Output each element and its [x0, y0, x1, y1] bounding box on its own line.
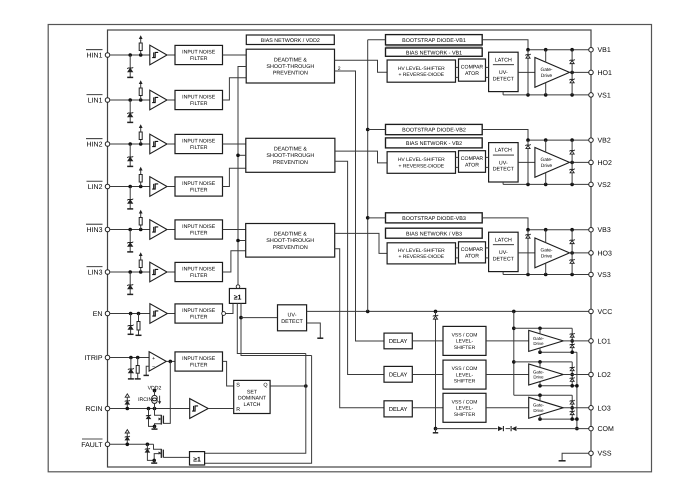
- wire latch VS reference (channel 3): [502, 272, 504, 275]
- pull-up resistor (HIN3): [140, 225, 142, 230]
- ground (ITRIP zener): [128, 378, 134, 380]
- svg-text:LATCH: LATCH: [244, 402, 261, 408]
- svg-text:FILTER: FILTER: [190, 101, 208, 107]
- wire LIN2 input net: [110, 186, 150, 188]
- schmitt trigger (HIN3): [150, 220, 167, 240]
- output clamp zeners (channel 3): [571, 230, 573, 275]
- resistor (ITRIP): [137, 358, 139, 366]
- IC boundary box: [108, 30, 592, 467]
- wire delay3 to level shifter: [412, 407, 443, 409]
- svg-text:Drive: Drive: [541, 253, 553, 259]
- ESD zener (EN): [130, 314, 132, 326]
- ground (LIN3): [127, 293, 133, 295]
- bias network block (VB3): [386, 228, 483, 238]
- pin HIN2: [105, 142, 110, 147]
- svg-text:LO1: LO1: [598, 338, 611, 345]
- comparator block (channel 3): [459, 242, 486, 263]
- svg-text:INPUT NOISE: INPUT NOISE: [182, 267, 216, 273]
- svg-text:VS1: VS1: [598, 92, 611, 99]
- svg-text:Drive: Drive: [533, 408, 544, 413]
- wire fault latch Q to OR gate: [237, 303, 305, 353]
- pin VCC: [589, 309, 594, 314]
- wire latch to gate driver (channel 3): [518, 252, 535, 254]
- svg-text:LATCH: LATCH: [495, 148, 512, 154]
- wire HV to comparator (channel 1): [456, 66, 459, 68]
- svg-text:HO1: HO1: [598, 70, 613, 77]
- svg-text:DETECT: DETECT: [493, 256, 515, 262]
- wire gate driver output HO3: [570, 252, 592, 254]
- inverter bubble (EN filter output): [222, 312, 226, 316]
- inverter bubble (OR gate output): [236, 285, 240, 289]
- wire ITRIP input net: [110, 357, 149, 359]
- VDD arrow (LIN1): [139, 80, 143, 84]
- wire EN to OR gate: [226, 303, 234, 313]
- svg-text:LATCH: LATCH: [495, 57, 512, 63]
- VDD arrow (HIN2): [139, 124, 143, 128]
- pin HO1: [589, 70, 594, 75]
- wire to filter (LIN3): [167, 271, 175, 273]
- wire UV net down to fault OR gate: [205, 356, 312, 464]
- svg-text:VB2: VB2: [598, 138, 611, 145]
- bootstrap diode block (VB2): [386, 124, 483, 134]
- svg-text:VB1: VB1: [598, 47, 611, 54]
- output clamp zeners (channel 2): [571, 140, 573, 184]
- svg-text:INPUT NOISE: INPUT NOISE: [182, 181, 216, 187]
- ground (EN resistor): [136, 334, 142, 336]
- wire UV-detect ground stub: [307, 323, 321, 338]
- svg-text:Gate-: Gate-: [541, 248, 553, 254]
- svg-text:PREVENTION: PREVENTION: [273, 160, 308, 166]
- gate driver (channel 2): [535, 148, 570, 178]
- wire LIN3 input net: [110, 271, 150, 273]
- schmitt trigger (EN): [150, 304, 168, 324]
- svg-text:Gate-: Gate-: [541, 67, 553, 73]
- wire deadtime2 low-side bus to delay2: [335, 161, 384, 374]
- svg-text:INPUT NOISE: INPUT NOISE: [182, 356, 216, 362]
- ground (HIN1): [127, 76, 133, 78]
- wire bootstrap 2 to VB2 rail: [482, 130, 528, 141]
- svg-text:≥1: ≥1: [193, 456, 201, 463]
- wire Q net down to fault OR gate: [205, 354, 306, 454]
- pin VB1: [589, 47, 594, 52]
- svg-text:ATOR: ATOR: [465, 163, 479, 169]
- svg-text:EN: EN: [93, 311, 103, 318]
- svg-text:Drive: Drive: [541, 73, 553, 79]
- bias network block (VB1): [386, 48, 483, 56]
- LO1 clamp zeners: [571, 328, 573, 352]
- svg-text:BOOTSTRAP DIODE-VB1: BOOTSTRAP DIODE-VB1: [402, 38, 466, 44]
- svg-text:COM: COM: [598, 426, 615, 433]
- bias network block (VB2): [386, 138, 483, 148]
- input noise filter (HIN1): [175, 45, 223, 64]
- input noise filter (LIN2): [175, 177, 223, 196]
- wire deadtime2 to HV level-shifter 2: [335, 151, 387, 163]
- wire to filter (LIN2): [167, 186, 175, 188]
- svg-text:BOOTSTRAP DIODE-VB2: BOOTSTRAP DIODE-VB2: [402, 128, 466, 134]
- wire LO2 output: [563, 374, 591, 376]
- svg-text:S: S: [236, 383, 240, 389]
- bootstrap diode block (VB1): [386, 45, 483, 48]
- wire FAULT output net: [110, 443, 154, 445]
- wire gate driver output HO2: [570, 161, 592, 163]
- svg-text:INPUT NOISE: INPUT NOISE: [182, 308, 216, 314]
- latch / UV-detect block (channel 1): [489, 52, 518, 91]
- svg-text:HV LEVEL-SHIFTER: HV LEVEL-SHIFTER: [398, 248, 445, 254]
- wire HIN1 filter to deadtime1: [223, 54, 247, 56]
- ground (ITRIP resistor): [135, 378, 141, 380]
- latch / UV-detect block (channel 2): [489, 143, 518, 182]
- discharge transistor Q1 (RCIN): [155, 409, 161, 416]
- wire deadtime1 low-side bus to delay1: [335, 71, 385, 341]
- svg-text:DETECT: DETECT: [493, 76, 515, 82]
- wire level shifter to LO driver (channel 1): [486, 340, 529, 342]
- wire latch to gate driver (channel 1): [518, 71, 535, 73]
- pin VS2: [589, 182, 594, 187]
- svg-text:Drive: Drive: [533, 341, 544, 346]
- pin RCIN: [105, 406, 110, 411]
- svg-text:HIN1: HIN1: [87, 53, 103, 60]
- wire HIN1 input net: [110, 54, 150, 56]
- gate driver supply stubs (channel 1): [545, 50, 547, 63]
- svg-text:DELAY: DELAY: [389, 373, 408, 379]
- pin LO2: [589, 372, 594, 377]
- pull-up resistor (LIN3): [140, 268, 142, 273]
- svg-text:HIN3: HIN3: [87, 227, 103, 234]
- wire to filter (LIN1): [167, 99, 175, 101]
- HV level-shifter block (channel 3): [387, 243, 455, 264]
- wire RCIN input net: [110, 408, 190, 410]
- VS3 rail: [503, 274, 591, 276]
- svg-text:INPUT NOISE: INPUT NOISE: [182, 50, 216, 56]
- ESD zener (HIN3): [129, 230, 131, 243]
- pin HO3: [589, 251, 594, 256]
- input noise filter (HIN2): [175, 134, 223, 153]
- clamp diode D1 (VSS-COM): [498, 426, 503, 431]
- wire HIN3 filter to deadtime3: [223, 229, 246, 231]
- pull-up resistor (HIN1): [140, 51, 142, 56]
- svg-text:LEVEL-: LEVEL-: [456, 372, 474, 378]
- svg-text:UV-: UV-: [499, 250, 508, 256]
- svg-text:VB3: VB3: [598, 227, 611, 234]
- ESD zener (ITRIP): [130, 358, 132, 370]
- svg-text:−: −: [152, 364, 155, 370]
- pull-up resistor (LIN1): [140, 96, 142, 101]
- wire deadtime1 to HV level-shifter 1: [335, 60, 388, 72]
- VCC-VSS zener rail: [435, 311, 437, 428]
- gate driver (channel 1): [535, 58, 570, 88]
- svg-text:≥1: ≥1: [234, 294, 242, 301]
- gate driver (channel 3): [535, 238, 570, 268]
- LO3 supply rails: [514, 394, 572, 396]
- delay block (channel 3): [384, 401, 412, 417]
- svg-text:PREVENTION: PREVENTION: [273, 245, 308, 251]
- wire UV fault to OR gate: [241, 303, 312, 355]
- clamp diode D2 (COM-VSS): [512, 426, 517, 431]
- VS2 rail: [503, 183, 591, 185]
- ground (LIN1): [127, 121, 133, 123]
- LO2 gate driver: [529, 364, 564, 385]
- ground (UV-detect): [317, 337, 323, 339]
- wire HIN3 input net: [110, 229, 150, 231]
- wire LIN3 filter to deadtime3: [223, 251, 246, 272]
- wire EN input net: [110, 313, 150, 315]
- svg-text:VS2: VS2: [598, 182, 611, 189]
- svg-text:SHIFTER: SHIFTER: [454, 345, 476, 351]
- svg-text:DEADTIME &: DEADTIME &: [274, 232, 307, 238]
- LO2 supply rails: [514, 361, 572, 363]
- svg-text:UV-: UV-: [288, 312, 297, 318]
- pin VB2: [589, 138, 594, 143]
- VSS/COM level shifter (channel 2): [443, 360, 486, 389]
- wire to filter (HIN1): [167, 54, 175, 56]
- svg-text:LIN1: LIN1: [88, 98, 103, 105]
- LO gate-drive supply rail: [513, 311, 515, 395]
- svg-text:COMPAR: COMPAR: [461, 65, 484, 71]
- schmitt trigger (LIN2): [150, 177, 167, 197]
- delay block (channel 1): [384, 333, 412, 349]
- wire comparator to latch (channel 1): [486, 66, 489, 68]
- ESD zener (HIN1): [129, 55, 131, 68]
- COM return chain: [576, 352, 578, 428]
- svg-text:FILTER: FILTER: [190, 231, 208, 237]
- svg-text:VCC: VCC: [598, 309, 613, 316]
- pin LO3: [589, 406, 594, 411]
- ESD zener (HIN2): [129, 144, 131, 157]
- ground (VSS): [559, 460, 566, 462]
- LO1 gate driver: [529, 330, 564, 351]
- svg-text:RCIN: RCIN: [85, 406, 102, 413]
- svg-text:VSS / COM: VSS / COM: [452, 399, 478, 405]
- svg-text:+ REVERSE-DIODE: + REVERSE-DIODE: [398, 254, 444, 260]
- VB-VS zener (channel 3): [527, 230, 529, 275]
- VS1 rail: [503, 94, 591, 96]
- ground (HIN3): [127, 251, 133, 253]
- svg-text:COMPAR: COMPAR: [461, 247, 484, 253]
- ground (EN zener): [128, 333, 134, 335]
- wire HV to comparator (channel 3): [456, 247, 459, 249]
- current source IRCIN: [154, 391, 156, 396]
- svg-text:LEVEL-: LEVEL-: [456, 406, 474, 412]
- pin COM: [589, 426, 594, 431]
- svg-text:Q: Q: [263, 383, 267, 389]
- schmitt trigger (HIN2): [150, 134, 167, 154]
- schmitt trigger (LIN1): [150, 90, 167, 110]
- svg-text:SET: SET: [247, 389, 258, 395]
- VDD arrow (LIN2): [139, 167, 143, 171]
- ESD zener (LIN2): [129, 187, 131, 200]
- pin FAULT: [105, 442, 110, 447]
- LO2 clamp zeners: [571, 362, 573, 386]
- svg-text:INPUT NOISE: INPUT NOISE: [182, 139, 216, 145]
- svg-text:LEVEL-: LEVEL-: [456, 339, 474, 345]
- wire HV to comparator (channel 2): [456, 156, 459, 158]
- ground (comparator reference): [144, 374, 149, 376]
- schmitt trigger (HIN1): [150, 45, 167, 65]
- ESD zener (LIN1): [129, 100, 131, 113]
- schmitt trigger (RCIN): [190, 399, 209, 419]
- wire VCC to bootstrap 3: [368, 217, 386, 219]
- svg-text:ATOR: ATOR: [465, 253, 479, 259]
- wire VCC to bootstrap 1: [368, 39, 386, 41]
- svg-text:VSS / COM: VSS / COM: [452, 366, 478, 372]
- pin HO2: [589, 160, 594, 165]
- pin HIN3: [105, 227, 110, 232]
- wire VCC bootstrap bus: [367, 40, 369, 312]
- wire OR gate output bus to deadtime blocks: [238, 67, 246, 285]
- svg-text:ITRIP: ITRIP: [85, 355, 103, 362]
- ground (VSS rail): [435, 429, 437, 433]
- ground (HIN2): [127, 165, 133, 167]
- VSS/COM level shifter (channel 1): [443, 326, 486, 355]
- svg-text:BIAS NETWORK - VB2: BIAS NETWORK - VB2: [406, 141, 462, 147]
- pin LIN2: [105, 184, 110, 189]
- svg-text:VS3: VS3: [598, 272, 611, 279]
- comparator block (channel 2): [459, 151, 486, 173]
- bias network / VDD2 box: [246, 35, 334, 45]
- svg-text:FAULT: FAULT: [81, 442, 103, 449]
- input noise filter (ITRIP): [175, 352, 223, 371]
- deadtime & shoot-through prevention block (channel 3): [246, 224, 335, 258]
- wire level shifter to LO driver (channel 2): [486, 374, 529, 376]
- svg-text:LO2: LO2: [598, 372, 611, 379]
- wire delay2 to level shifter: [412, 374, 443, 376]
- VB1 rail: [528, 49, 591, 51]
- pin ITRIP: [105, 355, 110, 360]
- ground (RCIN): [152, 428, 158, 430]
- VSS/COM level shifter (channel 3): [443, 393, 486, 422]
- wire LIN2 filter to deadtime2: [223, 168, 246, 186]
- svg-text:COMPAR: COMPAR: [461, 156, 484, 162]
- pin VS1: [589, 93, 594, 98]
- comparator (ITRIP): [149, 352, 166, 371]
- wire HIN2 filter to deadtime2: [223, 143, 246, 145]
- VDD arrow (HIN3): [139, 210, 143, 214]
- wire deadtime3 to HV level-shifter 3: [335, 233, 387, 253]
- schmitt trigger (LIN3): [150, 262, 167, 282]
- wire comparator to latch (channel 2): [486, 156, 489, 158]
- wire LO3 output: [563, 407, 591, 409]
- VB3 rail: [528, 229, 591, 231]
- wire bootstrap 3 to VB3 rail: [482, 218, 528, 230]
- wire latch VS reference (channel 2): [502, 182, 504, 184]
- ESD zener (RCIN): [149, 409, 155, 427]
- svg-text:SHIFTER: SHIFTER: [454, 379, 476, 385]
- svg-text:DOMINANT: DOMINANT: [238, 396, 267, 402]
- set dominant latch: [234, 380, 270, 413]
- wire to filter (HIN3): [167, 229, 175, 231]
- svg-text:BIAS NETWORK / VB3: BIAS NETWORK / VB3: [406, 231, 462, 237]
- ground (FAULT): [151, 462, 157, 464]
- svg-text:+ REVERSE-DIODE: + REVERSE-DIODE: [398, 163, 444, 169]
- wire HIN2 input net: [110, 143, 150, 145]
- OR gate U1 (shutdown logic): [229, 289, 245, 304]
- pin EN: [105, 311, 110, 316]
- svg-text:BOOTSTRAP DIODE-VB3: BOOTSTRAP DIODE-VB3: [402, 216, 466, 222]
- ground (LIN2): [127, 208, 133, 210]
- pull-up resistor (LIN2): [140, 182, 142, 187]
- internal pull-up (FAULT): [125, 430, 129, 433]
- wire ITRIP to RCIN discharge gate: [163, 361, 170, 423]
- pin VS3: [589, 272, 594, 277]
- wire delay1 to level shifter: [412, 340, 443, 342]
- svg-text:SHOOT-THROUGH: SHOOT-THROUGH: [266, 238, 314, 244]
- svg-text:+: +: [152, 356, 155, 362]
- HV level-shifter block (channel 1): [387, 60, 455, 82]
- svg-text:SHIFTER: SHIFTER: [454, 412, 476, 418]
- pull-up resistor (HIN2): [140, 140, 142, 145]
- wire bootstrap 1 to VB1 rail: [482, 40, 528, 50]
- pin LIN3: [105, 270, 110, 275]
- pin HIN1: [105, 53, 110, 58]
- svg-text:FILTER: FILTER: [190, 363, 208, 369]
- wire to filter (HIN2): [167, 143, 175, 145]
- svg-text:ATOR: ATOR: [465, 71, 479, 77]
- open-drain transistor Q2 (FAULT): [154, 444, 161, 449]
- svg-text:HO3: HO3: [598, 250, 613, 257]
- svg-text:LATCH: LATCH: [495, 237, 512, 243]
- ESD zener (LIN3): [129, 272, 131, 285]
- wire RCIN to latch R: [208, 408, 234, 410]
- svg-text:HV LEVEL-SHIFTER: HV LEVEL-SHIFTER: [398, 157, 445, 163]
- wire UV-detect VCC sense: [307, 310, 591, 312]
- wire latch VS reference (channel 1): [502, 92, 504, 95]
- COM rail with clamp diodes: [436, 428, 498, 430]
- input noise filter (LIN1): [175, 90, 223, 109]
- wire latch Q to fault OR: [270, 385, 306, 387]
- svg-text:FILTER: FILTER: [190, 56, 208, 62]
- bootstrap diode block (VB3): [386, 213, 483, 223]
- VDD arrow (LIN3): [139, 252, 143, 256]
- wire level shifter to LO driver (channel 3): [486, 407, 529, 409]
- wire ITRIP filter to latch S: [223, 361, 234, 386]
- wire VCC to bootstrap 2: [368, 129, 386, 131]
- wire latch to gate driver (channel 2): [518, 161, 535, 163]
- LO3 gate driver: [529, 397, 564, 418]
- wire LO1 output: [563, 340, 591, 342]
- VB-VS zener (channel 1): [527, 50, 529, 95]
- svg-text:VSS / COM: VSS / COM: [452, 332, 478, 338]
- svg-text:DETECT: DETECT: [493, 167, 515, 173]
- deadtime & shoot-through prevention block (channel 1): [246, 49, 334, 83]
- svg-text:BIAS NETWORK / VDD2: BIAS NETWORK / VDD2: [261, 38, 320, 44]
- svg-text:FILTER: FILTER: [190, 188, 208, 194]
- svg-text:DEADTIME &: DEADTIME &: [274, 147, 307, 153]
- svg-text:DEADTIME &: DEADTIME &: [274, 57, 307, 63]
- svg-text:FILTER: FILTER: [190, 145, 208, 151]
- VB2 rail: [528, 139, 591, 141]
- pin LO1: [589, 339, 594, 344]
- svg-text:DETECT: DETECT: [281, 319, 303, 325]
- UV-detect block: [278, 305, 307, 331]
- pin VSS: [589, 451, 594, 456]
- wire comparator output: [166, 360, 175, 362]
- svg-text:Drive: Drive: [541, 163, 553, 169]
- input noise filter (HIN3): [175, 220, 223, 239]
- svg-text:HV LEVEL-SHIFTER: HV LEVEL-SHIFTER: [398, 66, 445, 72]
- delay block (channel 2): [384, 366, 412, 382]
- svg-text:+ REVERSE-DIODE: + REVERSE-DIODE: [398, 72, 444, 78]
- pin VB3: [589, 227, 594, 232]
- svg-text:FILTER: FILTER: [190, 315, 208, 321]
- svg-text:FILTER: FILTER: [190, 273, 208, 279]
- latch / UV-detect block (channel 3): [489, 232, 518, 271]
- input noise filter (LIN3): [175, 262, 223, 281]
- svg-text:PREVENTION: PREVENTION: [273, 71, 308, 77]
- wire fault OR gate to transistor gate: [163, 456, 189, 458]
- svg-text:HIN2: HIN2: [87, 142, 103, 149]
- svg-text:INPUT NOISE: INPUT NOISE: [182, 224, 216, 230]
- svg-text:Drive: Drive: [533, 375, 544, 380]
